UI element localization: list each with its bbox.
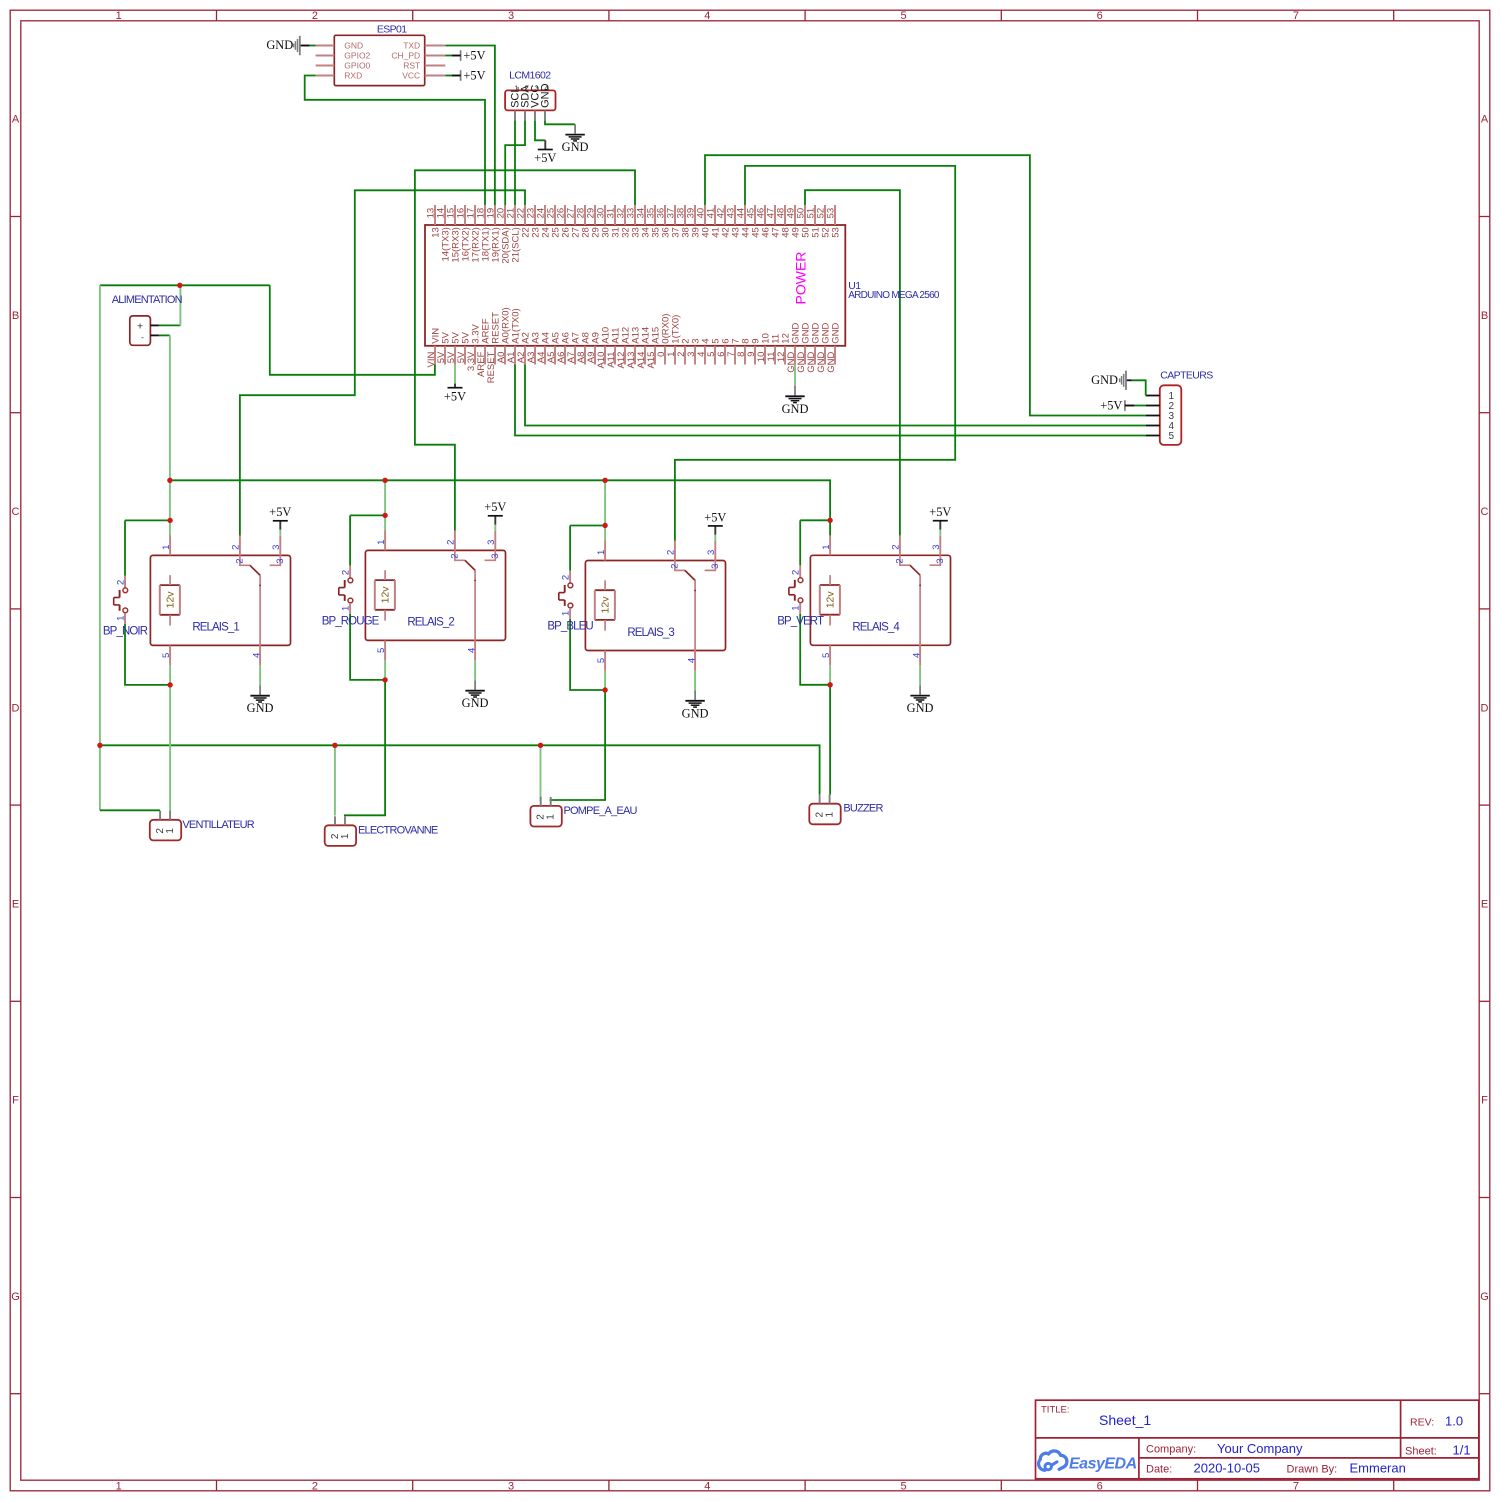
svg-text:ALIMENTATION: ALIMENTATION bbox=[112, 294, 183, 306]
svg-text:2: 2 bbox=[312, 1481, 318, 1493]
svg-text:GND: GND bbox=[462, 696, 489, 710]
svg-text:-: - bbox=[141, 332, 144, 342]
svg-text:5: 5 bbox=[376, 648, 387, 653]
svg-text:RELAIS_4: RELAIS_4 bbox=[852, 622, 900, 634]
svg-text:TXD: TXD bbox=[403, 41, 420, 51]
svg-text:5: 5 bbox=[1169, 431, 1175, 442]
svg-text:6: 6 bbox=[1097, 10, 1103, 22]
svg-text:+5V: +5V bbox=[463, 49, 485, 63]
svg-text:EasyEDA: EasyEDA bbox=[1069, 1456, 1137, 1473]
svg-text:3: 3 bbox=[534, 84, 538, 93]
svg-text:BUZZER: BUZZER bbox=[843, 803, 883, 815]
svg-text:1: 1 bbox=[825, 811, 836, 817]
svg-text:2: 2 bbox=[524, 84, 528, 93]
svg-text:GPIO0: GPIO0 bbox=[344, 61, 370, 71]
svg-text:+5V: +5V bbox=[444, 389, 466, 403]
svg-text:VENTILLATEUR: VENTILLATEUR bbox=[182, 819, 254, 831]
svg-text:D: D bbox=[12, 702, 20, 714]
svg-text:3: 3 bbox=[508, 1481, 514, 1493]
svg-text:+5V: +5V bbox=[463, 69, 485, 83]
svg-text:2: 2 bbox=[561, 575, 572, 580]
svg-text:12v: 12v bbox=[165, 591, 177, 609]
svg-text:2: 2 bbox=[449, 553, 460, 558]
svg-text:CH_PD: CH_PD bbox=[391, 51, 420, 61]
svg-text:+5V: +5V bbox=[484, 500, 506, 514]
svg-text:POMPE_A_EAU: POMPE_A_EAU bbox=[564, 805, 638, 817]
svg-text:6: 6 bbox=[1097, 1481, 1103, 1493]
svg-text:+5V: +5V bbox=[704, 510, 726, 524]
svg-text:1: 1 bbox=[596, 550, 607, 555]
svg-text:12v: 12v bbox=[825, 591, 837, 609]
svg-text:RELAIS_1: RELAIS_1 bbox=[192, 622, 239, 634]
svg-text:B: B bbox=[12, 310, 19, 322]
svg-text:G: G bbox=[11, 1291, 20, 1303]
svg-text:+5V: +5V bbox=[269, 505, 291, 519]
svg-text:A: A bbox=[1481, 114, 1489, 126]
svg-text:POWER: POWER bbox=[793, 252, 809, 305]
svg-text:B: B bbox=[1481, 310, 1488, 322]
svg-text:GND: GND bbox=[266, 38, 293, 52]
svg-text:GND: GND bbox=[247, 701, 274, 715]
svg-text:1.0: 1.0 bbox=[1445, 1414, 1463, 1429]
svg-text:4: 4 bbox=[544, 84, 548, 93]
svg-text:7: 7 bbox=[1293, 10, 1299, 22]
svg-text:2: 2 bbox=[666, 550, 677, 555]
svg-text:Sheet_1: Sheet_1 bbox=[1099, 1412, 1151, 1428]
svg-text:ESP01: ESP01 bbox=[377, 23, 407, 35]
svg-text:ARDUINO MEGA 2560: ARDUINO MEGA 2560 bbox=[848, 290, 940, 301]
svg-text:3: 3 bbox=[935, 558, 946, 563]
svg-text:4: 4 bbox=[466, 648, 477, 653]
svg-text:BP_VERT: BP_VERT bbox=[777, 616, 824, 628]
svg-text:53: 53 bbox=[830, 227, 841, 238]
svg-text:5: 5 bbox=[900, 10, 906, 22]
svg-text:Company:: Company: bbox=[1146, 1444, 1196, 1456]
svg-text:2020-10-05: 2020-10-05 bbox=[1194, 1461, 1261, 1476]
svg-text:3: 3 bbox=[486, 540, 497, 545]
svg-text:GND: GND bbox=[830, 322, 841, 343]
svg-text:3: 3 bbox=[706, 550, 717, 555]
svg-text:1: 1 bbox=[376, 540, 387, 545]
svg-text:Emmeran: Emmeran bbox=[1350, 1461, 1406, 1476]
svg-text:RXD: RXD bbox=[344, 71, 362, 81]
svg-text:5: 5 bbox=[821, 653, 832, 658]
svg-text:1: 1 bbox=[165, 828, 176, 834]
svg-text:LCM1602: LCM1602 bbox=[509, 69, 551, 81]
svg-text:VCC: VCC bbox=[402, 71, 420, 81]
svg-text:2: 2 bbox=[894, 558, 905, 563]
svg-text:12v: 12v bbox=[380, 586, 392, 604]
svg-text:1: 1 bbox=[791, 605, 802, 610]
svg-text:GND: GND bbox=[1091, 373, 1118, 387]
svg-text:2: 2 bbox=[791, 570, 802, 575]
svg-text:12v: 12v bbox=[600, 596, 612, 614]
svg-text:4: 4 bbox=[251, 653, 262, 658]
svg-text:1: 1 bbox=[161, 545, 172, 550]
svg-text:53: 53 bbox=[826, 208, 837, 219]
svg-text:+5V: +5V bbox=[1100, 399, 1122, 413]
svg-text:REV:: REV: bbox=[1410, 1417, 1434, 1429]
svg-text:3: 3 bbox=[931, 544, 942, 549]
svg-text:GND: GND bbox=[682, 706, 709, 720]
svg-text:A: A bbox=[12, 114, 20, 126]
svg-text:2: 2 bbox=[231, 545, 242, 550]
svg-text:G: G bbox=[1480, 1291, 1489, 1303]
svg-text:1: 1 bbox=[115, 616, 126, 621]
svg-text:1: 1 bbox=[821, 544, 832, 549]
svg-text:+: + bbox=[137, 320, 143, 332]
svg-text:GND: GND bbox=[907, 701, 934, 715]
svg-text:+5V: +5V bbox=[929, 505, 951, 519]
svg-text:Your Company: Your Company bbox=[1217, 1441, 1303, 1456]
svg-text:D: D bbox=[1481, 702, 1489, 714]
svg-text:2: 2 bbox=[341, 570, 352, 575]
svg-text:4: 4 bbox=[704, 10, 710, 22]
svg-text:4: 4 bbox=[704, 1481, 710, 1493]
svg-text:7: 7 bbox=[1293, 1481, 1299, 1493]
svg-text:3: 3 bbox=[710, 564, 721, 569]
svg-text:RELAIS_3: RELAIS_3 bbox=[627, 627, 674, 639]
svg-text:BP_NOIR: BP_NOIR bbox=[103, 626, 148, 638]
svg-text:2: 2 bbox=[234, 558, 245, 563]
svg-text:2: 2 bbox=[312, 10, 318, 22]
svg-text:4: 4 bbox=[911, 653, 922, 658]
svg-text:1: 1 bbox=[340, 833, 351, 839]
svg-text:4: 4 bbox=[686, 658, 697, 663]
svg-text:CAPTEURS: CAPTEURS bbox=[1160, 370, 1213, 382]
svg-text:5: 5 bbox=[161, 653, 172, 658]
svg-text:5: 5 bbox=[596, 658, 607, 663]
svg-text:RELAIS_2: RELAIS_2 bbox=[407, 617, 454, 629]
svg-text:ELECTROVANNE: ELECTROVANNE bbox=[358, 824, 438, 836]
svg-text:2: 2 bbox=[669, 564, 680, 569]
svg-text:1: 1 bbox=[341, 606, 352, 611]
svg-text:2: 2 bbox=[446, 540, 457, 545]
svg-text:5: 5 bbox=[900, 1481, 906, 1493]
svg-text:Date:: Date: bbox=[1146, 1464, 1172, 1476]
svg-text:1: 1 bbox=[546, 814, 557, 820]
svg-text:RST: RST bbox=[403, 61, 420, 71]
svg-text:TITLE:: TITLE: bbox=[1041, 1405, 1070, 1416]
svg-text:3: 3 bbox=[275, 558, 286, 563]
svg-text:1: 1 bbox=[514, 84, 518, 93]
svg-text:GND: GND bbox=[826, 351, 837, 372]
svg-text:GND: GND bbox=[562, 140, 589, 154]
svg-text:BP_ROUGE: BP_ROUGE bbox=[322, 616, 380, 628]
svg-text:3: 3 bbox=[490, 553, 501, 558]
svg-text:F: F bbox=[12, 1095, 19, 1107]
svg-text:GPIO2: GPIO2 bbox=[344, 51, 370, 61]
svg-text:C: C bbox=[1481, 506, 1489, 518]
svg-text:3: 3 bbox=[271, 545, 282, 550]
svg-text:2: 2 bbox=[115, 580, 126, 585]
svg-text:1: 1 bbox=[116, 1481, 122, 1493]
svg-text:E: E bbox=[1481, 899, 1488, 911]
svg-text:Drawn By:: Drawn By: bbox=[1287, 1464, 1338, 1476]
svg-text:1: 1 bbox=[116, 10, 122, 22]
svg-text:1: 1 bbox=[561, 611, 572, 616]
svg-text:3: 3 bbox=[508, 10, 514, 22]
svg-text:Sheet:: Sheet: bbox=[1405, 1445, 1437, 1457]
svg-text:+5V: +5V bbox=[534, 151, 556, 165]
svg-text:1/1: 1/1 bbox=[1453, 1442, 1471, 1457]
svg-text:F: F bbox=[1481, 1095, 1488, 1107]
svg-text:GND: GND bbox=[344, 41, 363, 51]
svg-text:BP_BLEU: BP_BLEU bbox=[547, 621, 593, 633]
svg-text:2: 2 bbox=[891, 544, 902, 549]
svg-text:GND: GND bbox=[782, 402, 809, 416]
svg-text:E: E bbox=[12, 899, 19, 911]
svg-text:C: C bbox=[12, 506, 20, 518]
